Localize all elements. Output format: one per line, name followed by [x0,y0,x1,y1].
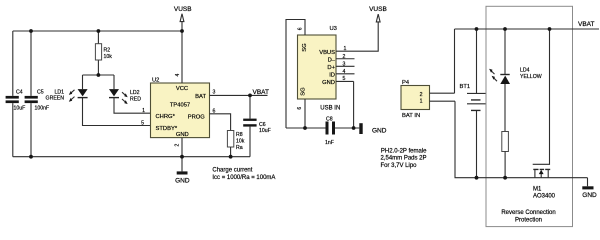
svg-text:C5: C5 [37,89,44,95]
svg-text:BT1: BT1 [460,84,471,90]
svg-text:5: 5 [141,121,144,127]
svg-text:1: 1 [344,46,347,52]
svg-text:3: 3 [213,90,216,96]
svg-text:AO3400: AO3400 [533,193,556,199]
svg-text:6: 6 [298,27,304,30]
svg-text:GREEN: GREEN [46,96,65,102]
svg-text:M1: M1 [533,187,542,193]
svg-text:For 3,7V Lipo: For 3,7V Lipo [381,163,418,169]
svg-text:100nF: 100nF [35,106,50,112]
svg-text:VBUS: VBUS [319,50,335,56]
svg-text:R8: R8 [236,132,243,138]
svg-text:USB IN: USB IN [320,106,340,112]
svg-text:U3: U3 [330,26,337,32]
svg-text:SG: SG [302,43,308,52]
svg-text:PROG: PROG [188,114,206,120]
svg-text:10uF: 10uF [14,106,26,112]
svg-text:D+: D+ [327,65,335,71]
svg-text:LD2: LD2 [130,90,140,96]
svg-text:3: 3 [343,61,346,67]
svg-text:4: 4 [175,74,181,77]
svg-text:Icc = 1000/Ra = 100mA: Icc = 1000/Ra = 100mA [212,175,275,181]
svg-text:10k: 10k [104,54,113,60]
svg-text:GND: GND [372,128,387,135]
svg-text:D–: D– [328,57,336,63]
svg-text:C4: C4 [16,89,23,95]
svg-text:VCC: VCC [176,86,188,92]
svg-text:STDBY*: STDBY* [156,126,178,132]
svg-text:5: 5 [343,76,346,82]
svg-text:ID: ID [329,72,335,78]
svg-text:GND: GND [176,132,189,138]
svg-text:Reverse Connection: Reverse Connection [501,210,555,216]
svg-text:2: 2 [175,144,181,147]
svg-text:YELLOW: YELLOW [520,74,542,80]
svg-text:6: 6 [213,109,216,115]
svg-text:GND: GND [322,80,335,86]
svg-text:BAT: BAT [195,94,206,100]
svg-text:CHRG*: CHRG* [156,114,176,120]
svg-text:RED: RED [130,96,141,102]
svg-text:6: 6 [297,107,303,110]
svg-text:LD1: LD1 [54,89,64,95]
svg-text:PH2.0-2P female: PH2.0-2P female [381,149,427,155]
svg-text:1: 1 [142,108,145,114]
svg-text:Protection: Protection [515,218,542,224]
svg-text:10k: 10k [236,139,245,145]
svg-text:SG: SG [301,87,307,96]
svg-text:BAT IN: BAT IN [402,113,420,119]
svg-text:VBAT: VBAT [578,21,595,28]
svg-text:LD4: LD4 [520,67,530,73]
svg-text:2: 2 [420,92,423,98]
svg-text:4: 4 [343,69,346,75]
svg-text:Charge current: Charge current [212,168,252,174]
svg-text:R2: R2 [104,47,111,53]
svg-text:2: 2 [343,54,346,60]
svg-text:1: 1 [420,99,423,105]
svg-text:10uF: 10uF [259,128,271,134]
svg-text:VBAT: VBAT [253,89,270,96]
svg-text:GND: GND [175,177,190,184]
svg-text:1nF: 1nF [325,140,334,146]
svg-text:C8: C8 [326,116,333,122]
svg-text:U2: U2 [152,78,159,84]
svg-text:GND: GND [582,192,597,199]
svg-text:2,54mm Pads 2P: 2,54mm Pads 2P [381,156,427,162]
svg-text:TP4057: TP4057 [170,103,190,109]
svg-text:VUSB: VUSB [369,6,387,13]
svg-text:VUSB: VUSB [174,6,192,13]
svg-text:P4: P4 [402,80,410,86]
svg-text:Ra: Ra [236,145,243,151]
